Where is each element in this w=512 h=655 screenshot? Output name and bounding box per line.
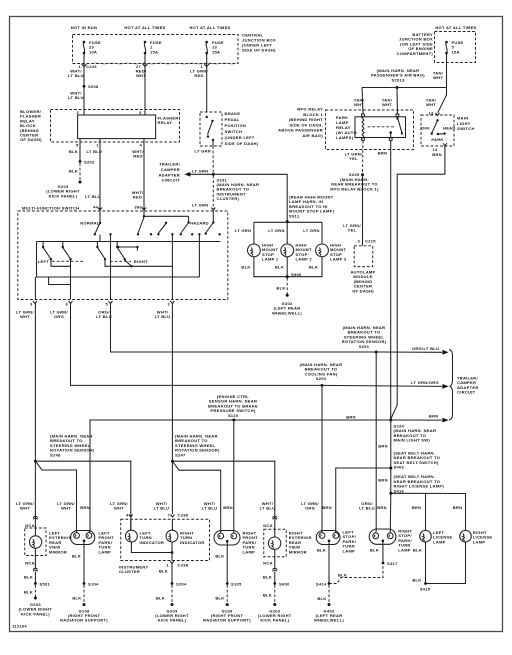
svg-text:BLK: BLK	[276, 286, 285, 291]
svg-text:LAMPS): LAMPS)	[336, 135, 354, 140]
svg-text:C215: C215	[365, 239, 376, 244]
high mount stop lamp 1	[248, 243, 279, 262]
svg-text:MULTI-FUNCTION SWITCH: MULTI-FUNCTION SWITCH	[22, 206, 79, 211]
svg-text:RIGHT: RIGHT	[134, 259, 148, 264]
svg-text:15A: 15A	[150, 49, 158, 54]
svg-text:RADIATOR SUPPORT): RADIATOR SUPPORT)	[60, 618, 108, 623]
flasher relay box	[78, 115, 156, 139]
wire LT GRN/YEL S245 to autolamp module	[362, 175, 364, 246]
battery junction box (dashed)	[435, 32, 476, 63]
svg-text:LIGHT: LIGHT	[457, 121, 471, 126]
wire BRN S416 down	[389, 493, 392, 530]
svg-text:KICK PANEL): KICK PANEL)	[21, 611, 50, 616]
autolamp module (dashed)	[354, 246, 373, 267]
svg-text:WHT: WHT	[382, 102, 392, 107]
multi-function switch box (dashed)	[18, 211, 228, 300]
wire BRN bus left	[90, 420, 391, 531]
wire LT GRN/ORG S260 down	[321, 385, 323, 530]
svg-text:S2013: S2013	[391, 77, 405, 82]
relay terminals	[362, 114, 365, 117]
svg-text:BLK: BLK	[24, 575, 33, 580]
svg-text:LAMP 3: LAMP 3	[330, 257, 347, 262]
svg-text:MAIN LIGHT SW): MAIN LIGHT SW)	[394, 438, 431, 443]
svg-text:BLK: BLK	[263, 575, 272, 580]
wire BLK dashed S414 to S417	[329, 565, 383, 584]
splice S417	[382, 562, 385, 565]
svg-text:BLOCK 1: BLOCK 1	[303, 112, 323, 117]
svg-text:BLK: BLK	[412, 578, 421, 583]
svg-text:C238: C238	[178, 563, 189, 568]
svg-text:ORG: ORG	[305, 506, 315, 511]
svg-text:S414: S414	[316, 582, 327, 587]
high mount stop lamp 2	[281, 243, 313, 262]
splice S202	[79, 160, 82, 163]
svg-text:BLK: BLK	[413, 548, 422, 553]
svg-text:KICK PANEL): KICK PANEL)	[260, 618, 289, 623]
svg-text:BRAKE: BRAKE	[225, 111, 241, 116]
svg-text:S208: S208	[88, 84, 99, 89]
wire BRN park lamp relay down	[390, 141, 392, 420]
svg-text:SWITCH: SWITCH	[457, 126, 475, 131]
svg-text:NCA: NCA	[25, 523, 35, 528]
svg-text:BLK: BLK	[159, 569, 168, 574]
wire BRN S224 down to S403	[390, 420, 392, 493]
wire BLK drops to ground bus	[254, 257, 322, 277]
svg-text:LT BLU: LT BLU	[260, 506, 276, 511]
svg-text:LAMP 1: LAMP 1	[262, 257, 279, 262]
svg-text:S104: S104	[88, 581, 99, 586]
svg-text:BLK: BLK	[338, 573, 347, 578]
ground G203 (lower right kick panel)	[171, 603, 174, 606]
svg-text:OFF: OFF	[421, 125, 430, 130]
svg-text:BLK: BLK	[215, 554, 224, 559]
wire LT GRN drops	[253, 222, 255, 244]
svg-text:BRN: BRN	[412, 505, 422, 510]
svg-text:WHEELWELL): WHEELWELL)	[272, 310, 302, 315]
svg-text:WHT: WHT	[20, 314, 30, 319]
svg-text:RADIATOR SUPPORT): RADIATOR SUPPORT)	[203, 618, 251, 623]
svg-text:S251: S251	[359, 344, 370, 349]
svg-text:WHT: WHT	[114, 506, 124, 511]
svg-text:RED: RED	[133, 154, 142, 159]
wire RED/WHT fuse1 to flasher relay	[144, 54, 146, 115]
svg-text:LT BLU: LT BLU	[155, 314, 171, 319]
svg-text:TRAILER/: TRAILER/	[159, 162, 180, 167]
svg-text:RED: RED	[194, 73, 203, 78]
ground G402 (left rear wheelwell)	[328, 603, 331, 606]
svg-text:ADAPTER: ADAPTER	[158, 172, 180, 177]
svg-text:LT GRN: LT GRN	[268, 228, 284, 233]
svg-text:LAMP: LAMP	[473, 539, 486, 544]
svg-text:HOT IN RUN: HOT IN RUN	[71, 25, 97, 30]
right turn indicator	[166, 530, 178, 542]
wire LT GRN/RED fuse13 to brake switch	[206, 54, 208, 112]
svg-text:LAMP 2: LAMP 2	[296, 257, 313, 262]
left turn indicator	[125, 530, 137, 542]
wire BRN arrow to trailer	[391, 419, 442, 421]
svg-text:YEL: YEL	[349, 156, 358, 161]
brake switch contacts	[206, 116, 208, 118]
svg-text:LAMP: LAMP	[243, 549, 256, 554]
wire BLK from terminal 5	[79, 139, 81, 162]
svg-text:BRN: BRN	[429, 414, 439, 419]
svg-text:SIDE OF DASH,: SIDE OF DASH,	[289, 122, 323, 127]
svg-text:BLK: BLK	[263, 593, 272, 598]
splice S245	[361, 173, 364, 176]
RPO relay block (dashed)	[326, 110, 414, 150]
svg-text:BLK: BLK	[69, 149, 78, 154]
svg-text:BRN: BRN	[378, 444, 388, 449]
svg-text:BLK: BLK	[215, 596, 224, 601]
svg-text:BLK: BLK	[370, 548, 379, 553]
svg-text:C243: C243	[86, 64, 97, 69]
svg-text:S600: S600	[279, 581, 290, 586]
svg-text:NCA: NCA	[263, 561, 273, 566]
splice S414	[328, 582, 331, 585]
svg-text:WHT: WHT	[354, 102, 364, 107]
wire LT GRN bus	[254, 221, 322, 223]
wire TAN/WHT from fuse 5	[438, 54, 447, 113]
svg-text:NCA: NCA	[263, 523, 273, 528]
svg-text:15A: 15A	[212, 49, 220, 54]
svg-text:S906: S906	[291, 272, 302, 277]
ground G203 (lower right kick panel)	[79, 181, 82, 184]
svg-text:BLK: BLK	[317, 548, 326, 553]
svg-text:S202: S202	[84, 159, 95, 164]
wire ORG/LT BLU arrow to trailer	[376, 351, 442, 353]
svg-text:S204: S204	[176, 581, 187, 586]
ground G203 (lower right kick panel)	[273, 603, 276, 606]
selector output row	[51, 260, 71, 266]
svg-text:(BEHIND RIGHT: (BEHIND RIGHT	[289, 117, 323, 122]
splice S906	[286, 275, 289, 278]
relay block (dashed)	[51, 110, 180, 143]
fuse 13	[205, 40, 224, 54]
svg-text:PEDAL: PEDAL	[225, 117, 240, 122]
svg-text:ORG/LT BLU: ORG/LT BLU	[412, 346, 439, 351]
output drops	[34, 277, 36, 299]
splice S231	[212, 173, 215, 176]
flasher feed bus	[37, 241, 221, 243]
svg-text:LT GRN: LT GRN	[192, 203, 208, 208]
wire WHT/RED relay to switch 386	[143, 139, 145, 211]
wire TAN/WHT bus	[362, 87, 447, 89]
svg-text:CIRCUIT: CIRCUIT	[457, 390, 476, 395]
wire BRN S403 left and down	[336, 468, 391, 531]
svg-text:COMPARTMENT): COMPARTMENT)	[397, 51, 434, 56]
ground G402 (left rear wheelwell)	[286, 294, 289, 297]
inline connector break	[33, 516, 38, 519]
svg-text:LAMP: LAMP	[433, 539, 446, 544]
svg-text:YEL: YEL	[348, 228, 357, 233]
cluster ground bus	[131, 542, 172, 561]
wire LT GRN/ORG arrow to trailer	[322, 385, 442, 386]
svg-text:NCA: NCA	[25, 561, 35, 566]
svg-text:BLK: BLK	[275, 265, 284, 270]
splice S415	[424, 582, 427, 585]
svg-text:LT BLU: LT BLU	[87, 149, 103, 154]
svg-text:ABOVE PASSENGER: ABOVE PASSENGER	[278, 128, 323, 133]
svg-text:WHT: WHT	[433, 75, 443, 80]
ground G109 (right front radiator support)	[226, 603, 229, 606]
svg-text:LT BLU: LT BLU	[68, 95, 84, 100]
svg-text:LT GRN: LT GRN	[192, 169, 208, 174]
svg-text:OF DASH): OF DASH)	[352, 288, 374, 293]
wire BRN S115 down	[233, 420, 235, 531]
svg-text:LT BLU: LT BLU	[359, 506, 375, 511]
svg-text:CAMPER: CAMPER	[161, 167, 180, 172]
svg-text:S260: S260	[316, 376, 327, 381]
svg-text:BLK: BLK	[69, 169, 78, 174]
svg-text:MIRROR: MIRROR	[49, 549, 67, 554]
svg-text:44: 44	[93, 205, 99, 210]
fuse 23	[83, 40, 101, 54]
svg-text:NORMAL: NORMAL	[80, 221, 100, 226]
svg-text:OF DASH): OF DASH)	[20, 137, 42, 142]
svg-text:HAZARD: HAZARD	[190, 221, 209, 226]
svg-text:S501: S501	[40, 581, 51, 586]
pickoff stubs	[42, 242, 44, 247]
svg-text:LAMP: LAMP	[398, 547, 411, 552]
relay contact	[397, 117, 402, 134]
svg-text:SIDE OF DASH): SIDE OF DASH)	[225, 141, 259, 146]
wire ORG/LT BLU S251 down	[375, 352, 377, 531]
svg-text:S911: S911	[289, 213, 300, 218]
svg-text:WHT: WHT	[20, 506, 30, 511]
svg-text:S403: S403	[394, 465, 405, 470]
wire LT GRN S231 down to switch	[212, 176, 214, 211]
svg-text:HOT AT ALL TIMES: HOT AT ALL TIMES	[189, 25, 230, 30]
bottom feed line	[37, 242, 200, 278]
svg-text:SWITCH: SWITCH	[225, 129, 243, 134]
wire BRN S416 to license lamps	[391, 493, 466, 530]
svg-text:S105: S105	[231, 581, 242, 586]
svg-text:BLK: BLK	[72, 554, 81, 559]
ground G108 (right front radiator support)	[83, 603, 86, 606]
mirror box (dashed)	[25, 528, 46, 556]
svg-text:SIDE OF DASH): SIDE OF DASH)	[242, 48, 276, 53]
svg-text:BRN: BRN	[432, 152, 442, 157]
splice S104	[83, 582, 86, 585]
wire BRN from main light switch 14	[391, 146, 445, 419]
ground G203 (lower right kick panel)	[34, 597, 37, 600]
svg-text:BRN: BRN	[80, 505, 90, 510]
svg-text:LT GRN: LT GRN	[235, 228, 251, 233]
splice S224	[389, 419, 392, 422]
svg-text:INDICATOR: INDICATOR	[140, 540, 165, 545]
svg-text:CLUSTER: CLUSTER	[119, 569, 140, 574]
svg-text:BLK: BLK	[156, 596, 165, 601]
svg-text:MAIN: MAIN	[457, 116, 468, 121]
svg-text:CLUSTER): CLUSTER)	[217, 196, 240, 201]
svg-text:S415: S415	[420, 587, 431, 592]
svg-text:BRN: BRN	[378, 478, 388, 483]
wire BLK to ground	[286, 278, 288, 294]
wire TAN/WHT to relay coil	[362, 88, 363, 114]
svg-text:RELAY: RELAY	[158, 120, 173, 125]
svg-text:WHEELWELL): WHEELWELL)	[314, 618, 344, 623]
svg-text:BLK: BLK	[72, 596, 81, 601]
relay coil	[362, 117, 364, 138]
svg-text:BLK: BLK	[24, 590, 33, 595]
svg-text:ORG: ORG	[54, 314, 64, 319]
svg-text:BRN: BRN	[377, 505, 387, 510]
svg-text:S247: S247	[175, 452, 186, 457]
svg-text:KICK PANEL): KICK PANEL)	[49, 193, 78, 198]
svg-text:HOT AT ALL TIMES: HOT AT ALL TIMES	[435, 25, 476, 30]
svg-text:C238: C238	[178, 513, 189, 518]
svg-text:RPO RELAY BLOCK 1): RPO RELAY BLOCK 1)	[330, 186, 379, 191]
svg-text:AIR BAG): AIR BAG)	[302, 133, 323, 138]
fuse 5	[445, 40, 463, 54]
wire TAN/WHT to relay contact	[396, 88, 398, 114]
svg-text:KICK PANEL): KICK PANEL)	[158, 618, 187, 623]
mirror lamp	[29, 536, 41, 548]
splice S105	[226, 582, 229, 585]
high mount stop lamp 3	[316, 243, 347, 262]
svg-text:10A: 10A	[89, 49, 97, 54]
svg-text:LT BLU: LT BLU	[154, 506, 170, 511]
svg-text:BLK: BLK	[241, 265, 250, 270]
svg-text:386: 386	[134, 205, 142, 210]
svg-text:BRN: BRN	[453, 505, 463, 510]
svg-text:WHT: WHT	[136, 73, 146, 78]
svg-text:LT GRN: LT GRN	[303, 228, 319, 233]
wire WHT/LT BLU fuse23 to flasher relay	[83, 54, 85, 115]
park lamp relay box	[355, 117, 406, 138]
svg-text:PARK: PARK	[431, 137, 443, 142]
svg-text:S416: S416	[394, 488, 405, 493]
fuse 1	[144, 40, 162, 54]
splice S600	[273, 582, 276, 585]
svg-text:LT GRN: LT GRN	[195, 149, 211, 154]
svg-text:BRN: BRN	[378, 151, 388, 156]
svg-text:LT BLU: LT BLU	[85, 194, 101, 199]
svg-text:WHT: WHT	[426, 102, 436, 107]
svg-text:HEAD: HEAD	[443, 125, 456, 130]
svg-text:MIRROR: MIRROR	[289, 549, 307, 554]
trailer/camper adapter arrow (left)	[190, 173, 213, 175]
splice S204	[171, 582, 174, 585]
svg-text:BRN: BRN	[346, 415, 356, 420]
svg-text:CIRCUIT: CIRCUIT	[162, 178, 181, 183]
trailer/camper adapter circuit bracket	[449, 350, 453, 421]
svg-text:BRN: BRN	[223, 505, 233, 510]
wire BLK dashed to ground	[79, 163, 81, 181]
svg-text:RPO RELAY: RPO RELAY	[297, 107, 323, 112]
splice S501	[34, 582, 37, 585]
svg-text:INDICATOR: INDICATOR	[180, 540, 205, 545]
svg-text:LAMP: LAMP	[99, 549, 112, 554]
central junction box (dashed)	[73, 35, 239, 64]
svg-text:POSITION: POSITION	[225, 123, 247, 128]
svg-text:LT BLU: LT BLU	[202, 506, 218, 511]
svg-text:S248: S248	[50, 452, 61, 457]
svg-text:S115: S115	[228, 413, 239, 418]
svg-text:HOT AT ALL TIMES: HOT AT ALL TIMES	[124, 25, 165, 30]
splice S208	[83, 85, 86, 88]
svg-text:BLK: BLK	[317, 596, 326, 601]
svg-text:RED: RED	[133, 195, 142, 200]
svg-text:LAMP: LAMP	[343, 548, 356, 553]
svg-text:WHT: WHT	[61, 506, 71, 511]
svg-text:BLK: BLK	[309, 265, 318, 270]
svg-text:112164: 112164	[12, 624, 27, 629]
svg-text:(UNDER LEFT: (UNDER LEFT	[225, 135, 255, 140]
svg-text:15A: 15A	[452, 49, 460, 54]
svg-text:LT BLU: LT BLU	[68, 73, 84, 78]
386 contact arm	[143, 211, 145, 217]
svg-text:BRN: BRN	[322, 505, 332, 510]
svg-text:LT BLU: LT BLU	[96, 314, 112, 319]
svg-text:LEFT: LEFT	[38, 259, 49, 264]
svg-text:S417: S417	[387, 561, 398, 566]
terminal LT GRN	[211, 208, 215, 211]
svg-text:LT GRN/ORG: LT GRN/ORG	[411, 380, 439, 385]
wire LT BLU relay to switch 44	[99, 139, 101, 211]
wire LT GRN S231 right to S911	[213, 174, 287, 221]
